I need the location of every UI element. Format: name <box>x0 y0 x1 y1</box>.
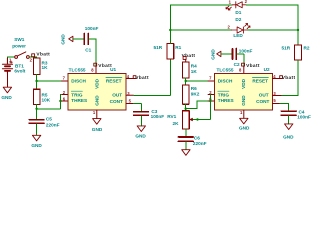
svg-text:GND: GND <box>241 95 246 106</box>
pin 5 stub U2 CONT <box>273 103 281 105</box>
pin 6 stub U1 <box>62 100 68 102</box>
wire junction to U1 DISCH <box>37 80 62 82</box>
svg-text:Vbatt: Vbatt <box>135 75 149 81</box>
ground (U1 pin1) <box>93 119 101 125</box>
resistor R6 <box>182 85 189 104</box>
svg-text:6volt: 6volt <box>14 68 25 73</box>
resistor R3 <box>33 58 40 75</box>
ground (battery) <box>3 87 11 93</box>
node junction wiper <box>196 118 198 120</box>
power flag Vbatt at U1 VDD <box>94 63 97 66</box>
ground (U2 pin1) <box>240 118 248 124</box>
svg-text:C2: C2 <box>234 62 240 67</box>
svg-text:51R: 51R <box>154 45 163 50</box>
svg-text:GND: GND <box>283 134 294 139</box>
wire RV1 bottom to C6 <box>185 129 187 137</box>
node junction left LED <box>169 29 171 31</box>
pin 2 stub U2 <box>208 94 214 96</box>
svg-text:220nF: 220nF <box>46 122 60 127</box>
svg-text:CONT: CONT <box>256 99 269 104</box>
pin 2 stub U1 <box>62 94 68 96</box>
wire C1 to U1 VDD <box>89 39 96 66</box>
svg-text:C4: C4 <box>299 109 305 114</box>
pin 1 stub U2 GND <box>243 110 245 118</box>
svg-text:GND: GND <box>135 133 146 138</box>
capacitor C4 <box>281 111 296 115</box>
pin 4 stub U1 RESET <box>126 78 134 80</box>
op IC U1 TLC555 body <box>68 74 126 111</box>
pin 7 stub U1 <box>62 80 68 82</box>
wire U1 OUT to R1 bottom <box>134 59 171 95</box>
power flag Vbatt at switch <box>32 54 35 57</box>
svg-text:GND: GND <box>239 126 250 131</box>
wire R4 bottom to R6 top <box>185 78 187 85</box>
pin 3 stub U2 OUT <box>273 95 282 97</box>
svg-text:GND: GND <box>92 127 103 132</box>
resistor R2 <box>295 45 302 60</box>
LED D1 (points left) <box>226 2 246 10</box>
battery BT1 <box>2 58 12 73</box>
wire R2 bottom to U2 OUT <box>281 60 298 95</box>
ground (C3) <box>137 126 145 132</box>
switch SW1 <box>15 52 30 58</box>
node junction R5/C5 <box>35 108 37 110</box>
ground (C1) pointing left <box>69 36 73 41</box>
pin 7 stub U2 <box>208 80 214 82</box>
pin 1 stub U1 GND <box>96 110 98 119</box>
svg-text:TRIG: TRIG <box>218 92 230 97</box>
ground (C2) pointing left <box>217 51 221 56</box>
wiper arrow RV1 <box>190 118 193 121</box>
wire R1 top to LED node <box>170 5 232 44</box>
svg-text:SW1: SW1 <box>14 37 25 42</box>
svg-text:100nF: 100nF <box>85 26 99 31</box>
wire U2 CONT to C4 <box>280 104 289 111</box>
node junction R4/R6 <box>185 80 187 82</box>
wire TRIG tie to RV1 wiper <box>192 95 210 120</box>
svg-text:GND: GND <box>61 34 66 45</box>
wire C4 to ground <box>288 116 290 124</box>
svg-text:C5: C5 <box>46 117 52 122</box>
svg-text:GND: GND <box>94 95 99 106</box>
wire U1 CONT to C3 <box>134 104 142 111</box>
LED D2 (points right) <box>232 24 250 33</box>
wire R6 bottom to RV1 top <box>185 104 187 111</box>
ground (C6) <box>182 150 190 156</box>
svg-text:OUT: OUT <box>259 92 269 97</box>
svg-text:C6: C6 <box>194 136 200 141</box>
pin 6 stub U2 <box>208 100 214 102</box>
wire junction A to U2 THRES <box>186 101 208 109</box>
wire C3 to ground <box>140 116 142 126</box>
wire battery minus to ground <box>6 72 8 88</box>
pin 3 stub U1 OUT <box>126 94 134 96</box>
svg-text:R1: R1 <box>175 45 181 50</box>
wire switch to R3 top <box>29 56 36 59</box>
svg-text:VDD: VDD <box>241 78 246 89</box>
capacitor C2 <box>233 49 237 60</box>
svg-text:U1: U1 <box>110 67 116 72</box>
node junction TRIG/THRES U2 <box>209 100 211 102</box>
svg-text:R2: R2 <box>304 46 310 51</box>
ground (C4) <box>285 124 293 130</box>
svg-text:GND: GND <box>210 49 215 60</box>
svg-text:2K: 2K <box>173 121 180 126</box>
svg-text:220nF: 220nF <box>193 141 207 146</box>
pin 4 stub U2 RESET <box>273 78 281 80</box>
pin 8 stub U2 <box>243 66 245 74</box>
svg-text:51R: 51R <box>282 46 291 51</box>
svg-text:D2: D2 <box>235 17 241 22</box>
power flag Vbatt at U2 VDD <box>242 63 245 66</box>
svg-text:DISCH: DISCH <box>71 79 86 84</box>
wire battery plus to switch <box>7 57 14 64</box>
svg-text:R6: R6 <box>191 86 197 91</box>
wire gnd to C2 <box>221 53 232 55</box>
wire junction to U1 TRIG/THRES tie <box>37 95 61 109</box>
capacitor C6 <box>178 137 193 141</box>
capacitor C3 <box>134 112 149 116</box>
svg-text:100nF: 100nF <box>297 115 311 120</box>
wire D2 right to junction <box>248 29 298 31</box>
node junction right LED <box>297 29 299 31</box>
svg-text:R4: R4 <box>191 63 197 68</box>
svg-text:RESET: RESET <box>252 79 268 84</box>
svg-text:TLC555: TLC555 <box>69 67 86 72</box>
wire C5 to ground <box>36 124 38 135</box>
power flag Vbatt at U1 RESET <box>133 76 136 79</box>
wire D1 right to R2 <box>246 5 298 45</box>
trimmer RV1 <box>183 111 190 129</box>
svg-text:DISCH: DISCH <box>218 79 233 84</box>
svg-text:100nF: 100nF <box>151 114 165 119</box>
power flag Vbatt at U2 RESET <box>280 76 283 79</box>
svg-text:RV1: RV1 <box>167 114 176 119</box>
ground (C5) <box>32 135 40 141</box>
svg-text:TLC555: TLC555 <box>217 67 234 72</box>
power flag Vbatt at R4 <box>183 56 186 59</box>
svg-text:1K: 1K <box>191 69 198 74</box>
op IC U2 TLC555 body <box>215 74 273 111</box>
resistor R5 <box>33 89 40 104</box>
capacitor C5 <box>29 120 44 124</box>
svg-text:THRES: THRES <box>218 98 234 103</box>
wire junction to U2 DISCH <box>186 80 208 82</box>
svg-text:power: power <box>12 44 26 49</box>
svg-text:THRES: THRES <box>71 98 87 103</box>
svg-text:100nF: 100nF <box>239 49 253 54</box>
svg-text:GND: GND <box>31 143 42 148</box>
capacitor C1 <box>84 34 88 45</box>
svg-text:1K: 1K <box>42 65 49 70</box>
resistor R1 <box>167 43 174 59</box>
svg-text:RESET: RESET <box>106 79 122 84</box>
svg-text:U2: U2 <box>264 67 270 72</box>
wire junction to D2 <box>170 29 231 31</box>
node junction THRES tie <box>59 100 61 102</box>
svg-text:LED: LED <box>233 33 243 38</box>
wire C6 to ground <box>185 142 187 150</box>
pin 8 stub U1 <box>95 66 97 74</box>
svg-text:Vbatt: Vbatt <box>282 75 296 81</box>
svg-text:Vbatt: Vbatt <box>36 51 50 57</box>
wire C2 to U2 VDD <box>237 54 244 66</box>
node junction R3/R5 <box>35 80 37 82</box>
svg-text:Vbatt: Vbatt <box>246 63 260 69</box>
svg-text:CONT: CONT <box>110 99 123 104</box>
svg-text:TRIG: TRIG <box>71 92 83 97</box>
svg-text:10K: 10K <box>42 97 51 102</box>
svg-text:C1: C1 <box>85 47 91 52</box>
svg-text:VDD: VDD <box>94 78 99 89</box>
wire R5 bottom to junction <box>36 104 38 118</box>
wire R3 bottom to R5 top <box>36 75 38 90</box>
svg-text:OUT: OUT <box>112 92 122 97</box>
wire gnd to C1 <box>73 38 84 40</box>
pin 5 stub U1 CONT <box>126 103 134 105</box>
svg-text:9K2: 9K2 <box>191 91 200 96</box>
svg-text:D1: D1 <box>235 10 241 15</box>
svg-text:GND: GND <box>1 95 12 100</box>
resistor R4 <box>182 62 189 78</box>
node junction A R6/RV1/THRES <box>185 108 187 110</box>
